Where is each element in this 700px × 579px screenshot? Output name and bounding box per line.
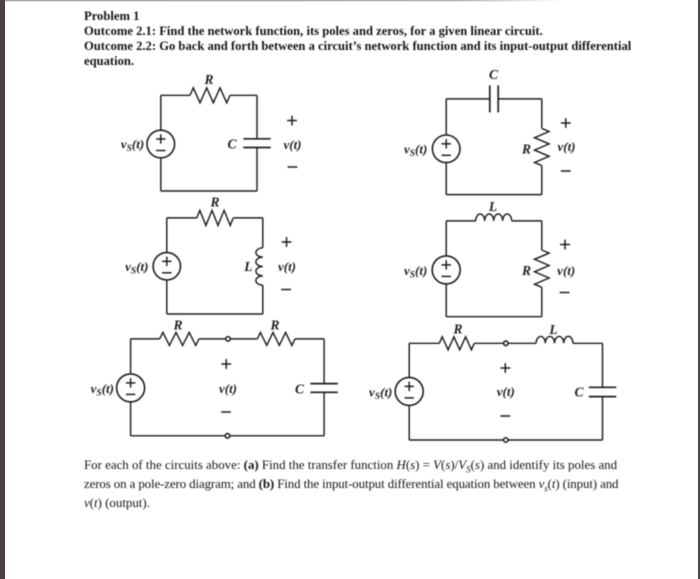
svg-text:L: L (488, 199, 497, 214)
svg-text:R: R (269, 318, 279, 333)
svg-text:L: L (243, 259, 252, 274)
svg-text:vS(t): vS(t) (404, 141, 427, 159)
svg-text:R: R (203, 72, 213, 87)
svg-text:vS(t): vS(t) (369, 384, 392, 402)
svg-text:v(t): v(t) (278, 259, 296, 274)
svg-text:R: R (452, 321, 462, 336)
svg-text:vS(t): vS(t) (121, 137, 144, 155)
svg-text:C: C (295, 381, 305, 396)
svg-text:v(t): v(t) (557, 139, 575, 154)
svg-text:v(t): v(t) (219, 381, 237, 396)
svg-text:C: C (574, 384, 584, 399)
svg-text:R: R (209, 195, 219, 210)
svg-text:vS(t): vS(t) (125, 259, 148, 277)
svg-text:R: R (172, 318, 182, 333)
svg-text:C: C (227, 136, 237, 151)
svg-text:vS(t): vS(t) (404, 263, 427, 281)
svg-text:C: C (489, 67, 499, 82)
svg-text:R: R (521, 141, 531, 156)
svg-text:L: L (548, 322, 557, 337)
svg-text:v(t): v(t) (283, 137, 301, 152)
svg-text:v(t): v(t) (557, 263, 575, 278)
svg-text:v(t): v(t) (497, 384, 515, 399)
svg-text:vS(t): vS(t) (91, 381, 114, 399)
svg-text:R: R (521, 263, 531, 278)
